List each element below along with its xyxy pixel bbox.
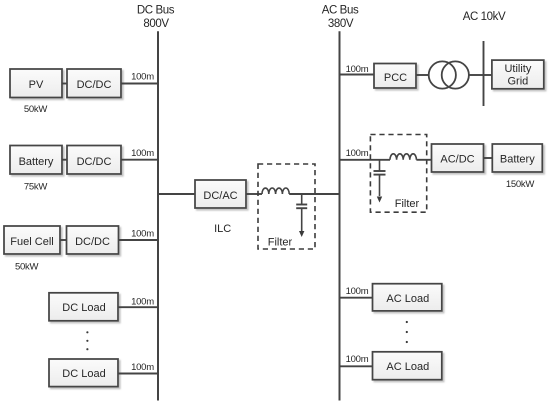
svg-text:AC Load: AC Load: [386, 293, 429, 305]
PV box: [10, 69, 62, 98]
AC Load box 1: [373, 284, 442, 311]
wire AC bus to AC Load 2: [340, 365, 373, 367]
svg-text:DC Bus: DC Bus: [137, 5, 175, 17]
capacitor C2 ground lead: [379, 175, 381, 196]
svg-text:DC Load: DC Load: [62, 368, 105, 380]
capacitor C1 ground lead: [301, 208, 303, 231]
svg-text:PCC: PCC: [384, 72, 407, 84]
converter DC/DC (PV): [67, 69, 121, 98]
svg-text:PV: PV: [29, 79, 44, 91]
svg-text:Grid: Grid: [508, 75, 529, 87]
wire PV to DC/DC: [62, 83, 67, 85]
DC Load box 2: [49, 359, 118, 387]
Fuel Cell box: [4, 226, 60, 254]
svg-text:50kW: 50kW: [24, 104, 48, 115]
wire DC bus to DC/AC: [158, 193, 195, 195]
svg-text:Battery: Battery: [19, 156, 54, 168]
transformer T1: [429, 61, 469, 88]
svg-text:50kW: 50kW: [15, 261, 39, 272]
wire DC Load 1 to DC bus: [118, 306, 158, 308]
AC Bus label: [322, 5, 359, 31]
wire Fuel Cell to DC/DC: [60, 239, 67, 241]
wire AC bus to PCC: [340, 74, 375, 76]
svg-text:100m: 100m: [346, 148, 369, 159]
Utility Grid box: [492, 60, 544, 89]
filter dashed box (ILC): [258, 164, 315, 249]
svg-text:DC/DC: DC/DC: [77, 156, 112, 168]
wire DC/AC to inductor: [246, 193, 262, 195]
svg-text:800V: 800V: [143, 18, 169, 30]
filter dashed box (AC battery): [370, 135, 426, 213]
converter DC/DC (Battery): [67, 146, 121, 175]
converter DC/AC (ILC): [195, 180, 246, 208]
svg-text:380V: 380V: [328, 18, 354, 30]
svg-text:AC 10kV: AC 10kV: [463, 11, 506, 23]
wire 10kV bus to Utility Grid: [484, 74, 493, 76]
svg-text:Battery: Battery: [500, 154, 535, 166]
capacitor C2 lead: [379, 160, 381, 171]
Battery box (AC): [492, 144, 542, 172]
svg-text:DC/AC: DC/AC: [203, 190, 237, 202]
svg-text:100m: 100m: [346, 64, 369, 75]
arrow (AC filter ground): [377, 197, 382, 203]
capacitor C1: [296, 205, 307, 209]
svg-text:Filter: Filter: [268, 237, 293, 249]
AC bus: [339, 31, 341, 400]
PCC box: [374, 64, 416, 89]
capacitor C2: [374, 171, 386, 175]
arrow (ILC filter ground): [299, 231, 304, 237]
wire Battery to DC/DC: [62, 159, 67, 161]
svg-text:DC/DC: DC/DC: [77, 79, 112, 91]
Battery box (DC): [10, 146, 62, 175]
capacitor C1 lead: [301, 194, 303, 204]
converter AC/DC: [432, 144, 484, 172]
svg-text:AC Load: AC Load: [386, 361, 429, 373]
wire DC/DC to DC bus (Battery row): [121, 159, 158, 161]
svg-text:Fuel Cell: Fuel Cell: [10, 236, 53, 248]
wire DC/DC to DC bus (Fuel Cell row): [119, 239, 159, 241]
svg-text:ILC: ILC: [214, 223, 231, 235]
svg-text:Filter: Filter: [395, 198, 420, 210]
wire DC Load 2 to DC bus: [118, 373, 158, 375]
svg-text:100m: 100m: [131, 229, 154, 240]
wire DC/DC to DC bus (PV row): [121, 83, 158, 85]
wire AC bus to AC Load 1: [340, 297, 373, 299]
wire inductor to AC/DC: [416, 159, 431, 161]
ellipsis dots (DC loads): [86, 331, 88, 350]
svg-text:AC/DC: AC/DC: [440, 154, 474, 166]
inductor L1 (ILC filter): [262, 188, 289, 194]
svg-text:100m: 100m: [131, 148, 154, 159]
svg-text:AC Bus: AC Bus: [322, 5, 359, 17]
svg-text:100m: 100m: [346, 354, 369, 365]
wire AC/DC to Battery: [484, 157, 493, 159]
AC Load box 2: [373, 352, 442, 380]
ellipsis dots (AC loads): [406, 321, 408, 343]
wire AC bus into right filter: [340, 159, 391, 161]
svg-text:75kW: 75kW: [24, 182, 48, 193]
svg-text:100m: 100m: [346, 286, 369, 297]
svg-text:150kW: 150kW: [506, 179, 535, 190]
DC Bus label: [137, 5, 175, 31]
DC Load box 1: [49, 293, 118, 321]
DC bus: [157, 31, 159, 400]
svg-text:100m: 100m: [131, 72, 154, 83]
10kV bus: [483, 41, 485, 106]
wire transformer to 10kV bus: [469, 74, 484, 76]
svg-text:Utility: Utility: [504, 63, 531, 75]
svg-text:100m: 100m: [131, 296, 154, 307]
wire inductor to AC bus: [289, 193, 339, 195]
inductor L2 (AC filter): [390, 154, 416, 160]
svg-text:DC Load: DC Load: [62, 302, 105, 314]
wire PCC to transformer: [416, 74, 429, 76]
converter DC/DC (Fuel Cell): [67, 226, 119, 254]
svg-text:100m: 100m: [131, 362, 154, 373]
svg-text:DC/DC: DC/DC: [75, 236, 110, 248]
